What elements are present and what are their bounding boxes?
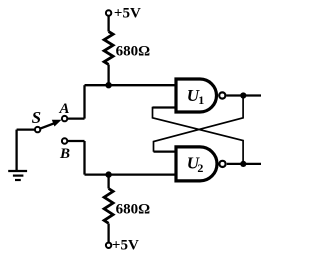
svg-text:S: S [32, 108, 41, 127]
svg-text:2: 2 [197, 161, 203, 175]
svg-text:B: B [59, 146, 70, 162]
svg-text:+5V: +5V [114, 6, 141, 22]
svg-text:+5V: +5V [112, 238, 139, 254]
svg-text:680Ω: 680Ω [116, 202, 151, 218]
svg-text:A: A [59, 101, 70, 117]
svg-text:680Ω: 680Ω [116, 44, 151, 60]
svg-text:1: 1 [198, 93, 204, 107]
